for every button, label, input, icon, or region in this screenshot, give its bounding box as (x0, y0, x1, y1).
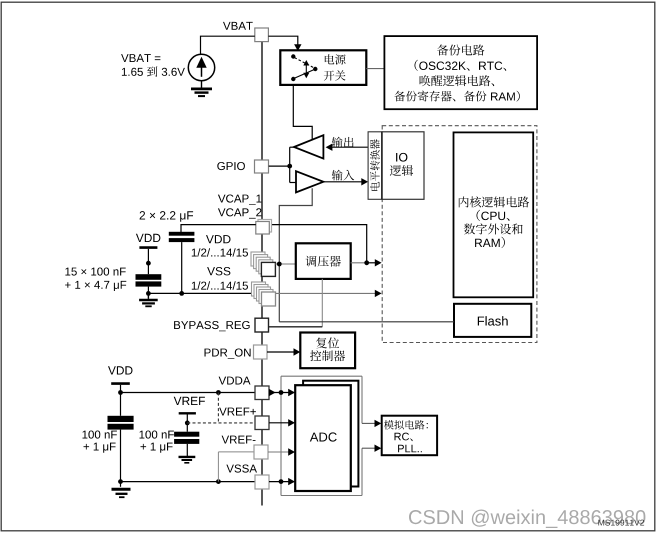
supply VDD symbol lower (108, 366, 133, 416)
pin VREF+ (255, 416, 269, 430)
wire VSSA to ADC (269, 478, 295, 485)
node GPIO label (217, 162, 245, 170)
analog circuits box (382, 416, 437, 456)
capacitor C_VDDA (108, 416, 134, 487)
dashed box digital logic (382, 126, 537, 343)
IO logic box (382, 132, 424, 200)
ground below VREF cap (179, 457, 196, 463)
wire VREF- to VSSA (218, 452, 254, 482)
wire VDDA line (121, 390, 256, 395)
power switch box U1 (280, 50, 366, 85)
pin VREF- (254, 445, 268, 459)
supply VREF symbol (174, 397, 205, 432)
wire level shifter to output buffer (326, 144, 369, 151)
core logic box (454, 132, 534, 297)
wire PDR_ON to reset controller (267, 348, 300, 355)
wire VREF+ to ADC (269, 419, 295, 426)
current source VBAT (188, 54, 214, 80)
wire pin rail (261, 40, 263, 506)
label output (332, 137, 354, 148)
wire regulator to bypass (321, 279, 323, 327)
wire analog supply loop (281, 376, 381, 495)
figure number MS19911V2 (598, 520, 644, 526)
wire VBAT to switch (268, 36, 301, 51)
pin PDR_ON (254, 345, 268, 359)
pin GPIO (255, 160, 269, 173)
node VREF- label (222, 436, 256, 444)
Flash box (454, 304, 531, 337)
ground below VDD caps (139, 293, 158, 306)
value label VDDA caps (83, 431, 117, 453)
ground below VBAT source (191, 81, 212, 96)
value label VDD caps (65, 268, 126, 292)
reset controller box (300, 333, 355, 369)
node VREF+ label (219, 408, 256, 416)
label 2x2.2uF (140, 211, 194, 222)
node VDDA label (219, 377, 251, 385)
pin VSSA (255, 475, 269, 489)
node VCAP_1 label (218, 195, 262, 205)
wire BYPASS_REG to regulator (269, 326, 323, 328)
wire VSSA line (121, 479, 256, 484)
value label VBAT source (121, 54, 185, 77)
wire switch to backup box (366, 68, 384, 70)
backup circuits box (384, 36, 537, 109)
wire regulator output (351, 259, 382, 266)
watermark CSDN (409, 510, 645, 529)
wire VCAP to capacitor (181, 225, 256, 232)
value label VREF caps (140, 431, 174, 453)
wire VREF+ dashed (187, 393, 255, 423)
pin VDDA (255, 386, 269, 400)
wire input buffer to level shifter (323, 178, 368, 185)
ADC box front (295, 385, 351, 491)
capacitor C_VREF (174, 432, 199, 456)
pin VCAP_2 (258, 220, 272, 233)
node BYPASS_REG label (174, 321, 250, 331)
wire VCAP to regulator right (269, 225, 366, 263)
level shifter box (368, 132, 382, 200)
regulator box (296, 243, 351, 279)
wire VDD rail to Flash (279, 321, 454, 323)
label input (332, 170, 354, 181)
supply VDD symbol upper (136, 234, 161, 274)
input buffer (296, 171, 323, 192)
capacitor C_VCAP (169, 232, 195, 296)
ground below VDDA cap (112, 489, 131, 497)
label VSS pins (192, 267, 248, 290)
wire GPIO to buffers (269, 147, 297, 182)
capacitor C_VDD bulk (136, 274, 162, 296)
node VCAP_2 label (218, 208, 262, 218)
wire VBAT to source (201, 36, 255, 54)
pin VCAP_1 (256, 222, 269, 235)
pin stack VDD 1..15 (251, 252, 275, 276)
pin BYPASS_REG (255, 318, 269, 332)
node PDR_ON label (205, 349, 251, 359)
wire VDD pins to regulator (275, 262, 295, 267)
wire VDDA to ADC (269, 389, 295, 396)
wire switch to output buffer (293, 85, 312, 140)
wire input buffer power down (279, 188, 312, 321)
ADC box back (303, 381, 358, 487)
pin VBAT (255, 28, 269, 42)
label VDD pins (192, 235, 248, 257)
wire VSS rail (148, 290, 381, 297)
power switch label (324, 54, 346, 80)
node VSSA label (226, 465, 257, 473)
power switch contacts (291, 54, 317, 81)
pin stack VSS 1..15 (252, 282, 276, 306)
output buffer (294, 135, 323, 158)
wire VREF- to ADC (268, 448, 295, 455)
node VBAT label (223, 22, 253, 30)
